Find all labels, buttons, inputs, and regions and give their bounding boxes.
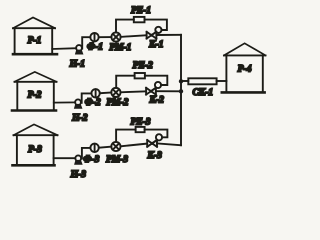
svg-text:Н-2: Н-2 xyxy=(71,113,88,123)
wire collector xyxy=(180,35,182,145)
svg-text:РЕ-2: РЕ-2 xyxy=(133,61,153,71)
control valve K-1 xyxy=(147,27,164,50)
junction xyxy=(179,89,183,93)
filter F-1 xyxy=(87,33,103,53)
wire mixer to tank P-4 xyxy=(217,80,227,82)
wire suction 1 xyxy=(52,47,76,50)
wire xyxy=(121,144,148,147)
pump H-2 xyxy=(71,99,88,123)
svg-text:К-3: К-3 xyxy=(147,151,163,161)
flow meter PM-1 xyxy=(109,32,131,53)
svg-text:РМ-1: РМ-1 xyxy=(109,43,131,53)
wire PE-2 to valve xyxy=(145,76,167,85)
svg-text:Ф-1: Ф-1 xyxy=(87,43,103,53)
wire impulse from PM-1 xyxy=(116,20,134,33)
junction xyxy=(179,79,183,83)
svg-text:Ф-2: Ф-2 xyxy=(85,98,101,108)
wire xyxy=(156,90,181,92)
svg-text:Р-3: Р-3 xyxy=(28,145,42,155)
svg-text:Н-1: Н-1 xyxy=(69,60,85,70)
wire pump discharge 1 xyxy=(82,37,90,48)
wire xyxy=(157,143,181,145)
svg-text:К-2: К-2 xyxy=(149,96,165,106)
mixer SK-1 xyxy=(188,78,216,98)
svg-text:Ф-3: Ф-3 xyxy=(83,155,99,165)
wire PE-1 to valve xyxy=(145,20,167,30)
flow meter PM-3 xyxy=(106,142,128,165)
wire impulse from PM-2 xyxy=(116,76,134,88)
svg-text:Р-1: Р-1 xyxy=(28,36,42,46)
pump H-1 xyxy=(69,45,85,69)
tank P-2 xyxy=(12,72,57,111)
wire pump discharge 3 xyxy=(82,148,91,159)
regulator PE-2 xyxy=(133,61,153,79)
wire pump discharge 2 xyxy=(82,93,92,102)
wire impulse from PM-3 xyxy=(116,130,136,142)
svg-text:Н-3: Н-3 xyxy=(70,170,87,180)
svg-text:Р-2: Р-2 xyxy=(28,91,42,101)
control valve K-3 xyxy=(147,134,163,161)
tank P-1 xyxy=(13,18,57,55)
wire xyxy=(99,36,112,38)
flow meter PM-2 xyxy=(106,88,128,108)
tank P-4 xyxy=(222,43,266,92)
svg-text:К-1: К-1 xyxy=(148,40,163,50)
wire suction 2 xyxy=(54,101,75,103)
svg-text:Р-4: Р-4 xyxy=(238,65,252,75)
regulator PE-1 xyxy=(131,6,151,22)
filter F-2 xyxy=(85,89,101,108)
tank P-3 xyxy=(13,124,58,165)
wire xyxy=(100,92,112,95)
wire to mixer xyxy=(181,80,188,82)
wire PE-3 to valve xyxy=(145,130,168,138)
regulator PE-3 xyxy=(130,117,150,132)
filter F-3 xyxy=(83,144,99,165)
wire xyxy=(121,35,147,37)
wire xyxy=(156,34,181,36)
svg-text:РМ-2: РМ-2 xyxy=(106,98,128,108)
wire suction 3 xyxy=(54,157,76,159)
wire xyxy=(121,91,147,92)
svg-text:РМ-3: РМ-3 xyxy=(106,155,128,165)
control valve K-2 xyxy=(146,82,164,106)
svg-text:СК-1: СК-1 xyxy=(192,88,213,98)
svg-text:РЕ-3: РЕ-3 xyxy=(130,117,150,127)
wire xyxy=(99,147,112,148)
svg-text:РЕ-1: РЕ-1 xyxy=(131,6,151,16)
pump H-3 xyxy=(70,155,87,180)
